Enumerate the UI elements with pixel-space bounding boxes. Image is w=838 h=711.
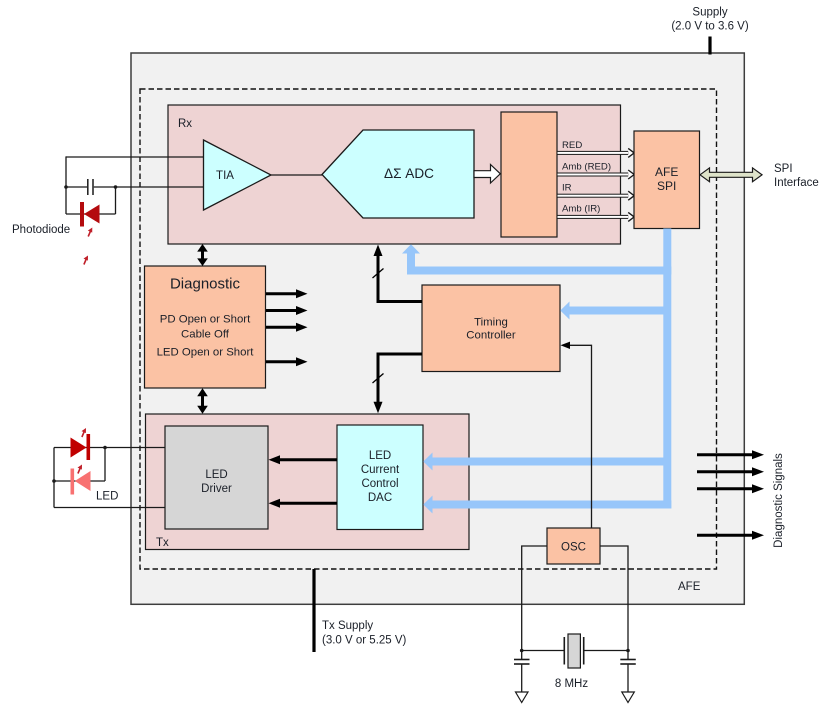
svg-text:Supply: Supply [692,7,727,19]
Timing Controller block [422,285,560,372]
diagnostic output arrow 1 [266,289,308,298]
svg-text:LED: LED [369,450,391,462]
signal wire RED [557,140,634,158]
diagnostic signal arrow 1 [697,450,764,459]
supply wire [708,37,711,55]
ADC U1 delta-sigma [322,130,474,218]
svg-text:AFE: AFE [678,581,701,593]
wire LED middle [54,480,105,482]
node junction left middle [64,185,68,189]
svg-text:Timing: Timing [474,316,508,328]
blue bus branch to Timing Controller [560,302,667,320]
node junction crystal right [626,649,630,653]
wire LED mid vertical [104,448,106,482]
LED D2 light arrow [82,428,87,437]
wire OSC right to crystal [600,546,628,659]
capacitor C1 (left) [514,660,530,693]
arrow Diagnostic-Tx (bidirectional) [197,388,208,413]
svg-text:RED: RED [562,140,582,151]
diagnostic output arrow 4 [266,357,308,366]
LED label [96,491,118,503]
svg-text:Tx Supply: Tx Supply [322,620,373,632]
svg-text:AFE: AFE [655,165,678,179]
ground right [622,692,635,703]
wire OSC left to crystal [522,546,547,659]
outer AFE package box [131,53,744,604]
Diagnostic Signals label [773,453,785,548]
svg-text:ΔΣ ADC: ΔΣ ADC [384,166,434,181]
buffer block (sample registers) [501,112,557,237]
svg-text:Cable Off: Cable Off [181,329,230,341]
svg-text:Diagnostic Signals: Diagnostic Signals [773,453,785,548]
Tx block [146,414,470,550]
diagnostic output arrow 3 [266,323,308,332]
node junction crystal left [520,649,524,653]
crystal label 8 MHz [555,678,588,690]
LED Current Control DAC block [337,425,423,530]
wire crystal horizontal left [522,650,564,652]
diagnostic signal arrow 4 [697,531,764,540]
wire cap right segment to TIA [94,186,204,188]
svg-text:DAC: DAC [368,492,392,504]
ground left [516,692,529,703]
svg-text:Amb (IR): Amb (IR) [562,204,600,215]
OSC block [547,528,600,564]
bus wire TC to Rx (black L with up arrow) [373,245,423,302]
Rx block [168,105,621,244]
wire cap left segment [66,186,87,188]
wire photodiode left vertical [65,156,67,214]
SPI interface double arrow [700,168,762,182]
signal wire IR [557,182,634,200]
wire LED top into driver [54,447,165,449]
blue bus branch to Rx [402,244,671,270]
svg-text:Controller: Controller [466,329,516,341]
op-amp TIA [204,140,272,210]
diagnostic signal arrow 2 [697,467,764,476]
svg-text:LED Open or Short: LED Open or Short [157,347,255,359]
svg-text:Control: Control [361,478,398,490]
svg-text:SPI: SPI [657,179,676,193]
arrow Rx-Diagnostic (bidirectional) [197,244,208,266]
svg-text:OSC: OSC [561,542,586,554]
wire TIA to ADC [271,174,322,176]
wire LED bottom into driver [54,507,165,509]
crystal Y1 8 MHz [564,634,583,668]
svg-text:Photodiode: Photodiode [12,224,70,236]
svg-text:Amb (RED): Amb (RED) [562,162,611,173]
blue bus branch to DAC upper [423,453,667,471]
svg-text:Interface: Interface [774,177,819,189]
wire photodiode bottom [66,213,116,215]
capacitor C (photodiode) [88,179,93,195]
Diagnostic block [145,266,266,388]
bus wire TC to Tx (black L with down arrow) [373,354,423,413]
svg-text:(3.0 V or 5.25 V): (3.0 V or 5.25 V) [322,635,407,647]
svg-text:Current: Current [361,464,400,476]
svg-text:(2.0 V to 3.6 V): (2.0 V to 3.6 V) [671,21,749,33]
svg-text:SPI: SPI [774,163,793,175]
arrow DAC to LED Driver 2 [269,499,338,508]
Photodiode label [12,224,70,236]
AFE label [678,581,701,593]
Tx supply wire [312,569,315,652]
diagnostic output arrow 2 [266,306,308,315]
blue SPI bus vertical [663,229,671,509]
svg-text:LED: LED [96,491,118,503]
node junction LED top [103,446,107,450]
wire LED left vertical [53,448,55,508]
signal wire Amb (RED) [557,162,634,179]
diagnostic signal arrow 3 [697,484,764,493]
LED Driver block [165,426,268,529]
wire OSC to Timing Controller [561,342,592,528]
photodiode D1 [80,202,100,227]
wire photodiode top [66,156,204,158]
LED D2 (red) [71,434,91,460]
AFE dashed boundary [140,89,717,569]
svg-text:8 MHz: 8 MHz [555,678,588,690]
svg-text:Diagnostic: Diagnostic [170,276,241,293]
wire crystal horizontal right [584,650,628,652]
arrow DAC to LED Driver 1 [269,455,338,464]
blue bus branch to DAC lower [423,496,671,514]
LED D3 (salmon) [71,469,91,495]
Supply label [671,7,749,33]
node junction LED left [52,479,56,483]
signal wire Amb (IR) [557,204,634,222]
wire photodiode right vertical [115,187,117,214]
AFE SPI block U2 [634,131,700,229]
block arrow ADC to buffer [474,165,500,184]
photodiode light arrows [84,228,93,265]
SPI Interface label [774,163,819,189]
svg-text:Rx: Rx [178,118,192,130]
svg-text:Driver: Driver [201,483,232,495]
capacitor C2 (right) [620,660,636,693]
svg-text:Tx: Tx [156,537,169,549]
svg-text:LED: LED [205,469,227,481]
svg-text:PD Open or Short: PD Open or Short [160,314,251,326]
Tx Supply label [322,620,407,647]
svg-text:TIA: TIA [216,170,234,182]
node junction on middle wire [114,185,118,189]
svg-text:IR: IR [562,182,572,193]
LED D3 light arrow [78,465,83,474]
